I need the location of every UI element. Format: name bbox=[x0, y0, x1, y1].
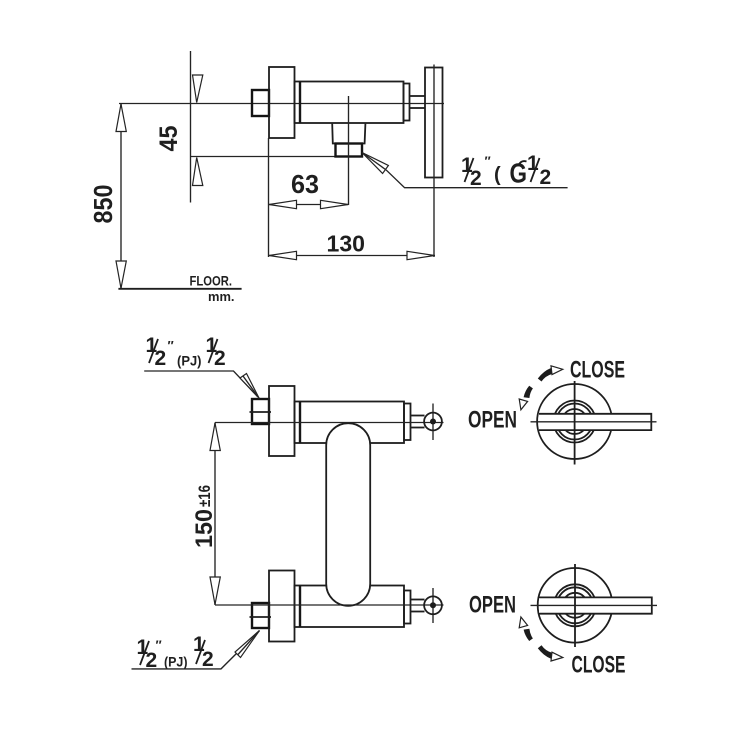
body collar line bbox=[299, 82, 301, 124]
vertical centerline bbox=[574, 564, 576, 647]
wall flange (top view) bbox=[269, 67, 295, 138]
dim 850 arrow top bbox=[116, 104, 126, 132]
rotate arrow toward OPEN (up) bbox=[524, 629, 533, 641]
dim 850 line bbox=[120, 104, 122, 289]
svg-text:G: G bbox=[510, 158, 528, 189]
svg-text:150: 150 bbox=[191, 509, 218, 548]
inlet nut (top view) bbox=[252, 90, 269, 116]
wall line (45 dim reference vertical) bbox=[190, 51, 192, 203]
svg-text:2: 2 bbox=[540, 166, 552, 189]
centerline of faucet body / 850 top reference bbox=[119, 103, 444, 105]
upper valve: inlet nut bbox=[252, 399, 269, 424]
valve body (top view) bbox=[295, 82, 404, 124]
spout centerline bbox=[348, 96, 350, 205]
handle lever plate (side view) bbox=[425, 68, 443, 178]
svg-text:2: 2 bbox=[155, 347, 167, 370]
dim 130 line bbox=[269, 255, 436, 257]
lower valve body bbox=[295, 586, 405, 628]
lever bar bbox=[539, 413, 652, 430]
inner rings bbox=[554, 401, 596, 443]
svg-text:130: 130 bbox=[327, 231, 366, 257]
dim 150 arrow top bbox=[210, 423, 220, 451]
rotate arrow toward OPEN bbox=[524, 386, 533, 398]
floor line bbox=[118, 288, 241, 290]
upper stem bbox=[411, 415, 425, 417]
rotate arrow toward CLOSE (right-down) bbox=[538, 645, 552, 659]
svg-text:OPEN: OPEN bbox=[469, 592, 516, 619]
top PJ leader bbox=[144, 371, 257, 397]
svg-text:±16: ±16 bbox=[195, 485, 214, 507]
upper handle: crosshair + circle + dot bbox=[432, 404, 434, 441]
dim 63 left arrow bbox=[269, 200, 297, 208]
spout body bbox=[332, 124, 365, 144]
upper nut hex line bbox=[250, 411, 272, 413]
stray curl over G bbox=[518, 161, 527, 166]
centerline through bar bbox=[531, 604, 658, 606]
lower stem bbox=[411, 599, 425, 601]
dim 150 arrow bottom bbox=[210, 577, 220, 605]
lower handle plan: big circle bbox=[538, 568, 613, 643]
upper centerline bbox=[215, 422, 444, 424]
leader lines bbox=[386, 170, 568, 188]
45 ref line at spout bottom bbox=[191, 156, 336, 158]
rotate arrow toward CLOSE bbox=[538, 368, 552, 382]
svg-text:45: 45 bbox=[155, 125, 183, 151]
U connecting pipe (riser) bbox=[326, 423, 370, 606]
dim 150 text bbox=[191, 485, 218, 548]
lower nut hex line bbox=[250, 616, 272, 618]
label 1/2"(PJ)1/2 top bbox=[146, 334, 226, 370]
lower centerline bbox=[215, 604, 444, 606]
svg-text:(: ( bbox=[494, 164, 501, 186]
upper handle plan: big circle bbox=[537, 384, 612, 459]
svg-text:2: 2 bbox=[470, 167, 482, 190]
upper valve body bbox=[295, 402, 405, 444]
svg-text:CLOSE: CLOSE bbox=[570, 356, 625, 383]
svg-text:″: ″ bbox=[168, 338, 174, 353]
lever bar bbox=[539, 597, 652, 614]
lower end cap bbox=[404, 591, 411, 624]
lower handle: crosshair + circle + dot bbox=[432, 588, 434, 623]
dim 130 right arrow bbox=[407, 251, 435, 259]
G 1/2 label text bbox=[461, 152, 551, 190]
handle axis / 130 right extension line bbox=[433, 65, 435, 258]
bottom PJ leader bbox=[132, 633, 258, 669]
leader for G1/2 label: arrow at spout bbox=[362, 153, 388, 174]
dim 150 line bbox=[214, 423, 216, 606]
lower valve: inlet nut bbox=[252, 603, 269, 628]
body end cap bbox=[404, 84, 410, 121]
svg-text:″: ″ bbox=[156, 638, 162, 653]
label 1/2"(PJ)1/2 bottom bbox=[137, 633, 214, 672]
dim 63 right arrow bbox=[321, 200, 349, 208]
vertical centerline bbox=[574, 381, 576, 465]
svg-text:″: ″ bbox=[485, 154, 491, 169]
svg-text:850: 850 bbox=[88, 185, 118, 224]
svg-text:OPEN: OPEN bbox=[468, 407, 517, 434]
centerline through bar bbox=[531, 421, 657, 423]
svg-text:mm.: mm. bbox=[208, 290, 235, 304]
spout aerator tip bbox=[336, 144, 363, 157]
svg-text:2: 2 bbox=[214, 347, 226, 370]
handle stem (top view) bbox=[410, 95, 426, 97]
upper body collar bbox=[299, 402, 301, 444]
svg-text:(PJ): (PJ) bbox=[177, 353, 202, 369]
upper wall flange bbox=[269, 386, 295, 456]
inner rings bbox=[554, 584, 596, 626]
upper end cap bbox=[404, 404, 411, 441]
dim 850 arrow bottom bbox=[116, 261, 126, 288]
lower body collar bbox=[299, 586, 301, 628]
dim 45 arrow lower bbox=[193, 158, 203, 186]
63/130 left extension line (from flange) bbox=[268, 138, 270, 257]
svg-text:CLOSE: CLOSE bbox=[572, 652, 626, 679]
svg-text:2: 2 bbox=[202, 648, 214, 671]
dim 130 left arrow bbox=[269, 251, 297, 259]
svg-text:63: 63 bbox=[291, 169, 319, 199]
svg-text:(PJ): (PJ) bbox=[164, 654, 188, 670]
dim 63 line bbox=[269, 204, 349, 206]
svg-text:FLOOR.: FLOOR. bbox=[190, 273, 233, 289]
dim 45 arrow upper bbox=[193, 75, 203, 103]
lower wall flange bbox=[269, 571, 295, 642]
